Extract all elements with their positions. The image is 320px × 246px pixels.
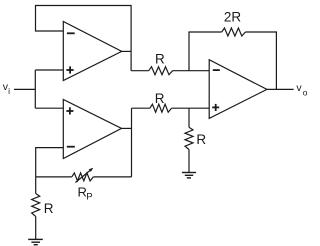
wire 2R right leg down to U3 output xyxy=(245,32,276,89)
wire R3 top lead xyxy=(188,108,190,127)
op-amp U1 xyxy=(63,22,121,81)
wire U2 inverting input xyxy=(36,148,64,177)
wire RP feedback left lead xyxy=(36,176,72,178)
svg-text:R: R xyxy=(155,51,165,66)
wire R2 left lead from U2 feedback corner xyxy=(132,107,150,109)
svg-text:i: i xyxy=(8,86,10,96)
wire R4 top lead xyxy=(35,177,37,194)
wire R3 bottom lead xyxy=(188,150,190,173)
ground (right) xyxy=(182,173,196,178)
ground (left) xyxy=(28,239,43,244)
wire branch to U2 noninverting input xyxy=(35,107,63,109)
op-amp U3 xyxy=(209,60,267,119)
wire RP feedback right vertical xyxy=(131,108,133,177)
resistor R3 (to ground) xyxy=(185,127,193,149)
svg-text:R: R xyxy=(196,132,206,147)
wire R1 right lead to U3 inverting input xyxy=(173,70,210,72)
wire input branch vertical xyxy=(34,70,36,108)
svg-text:2R: 2R xyxy=(224,10,242,25)
label RP value xyxy=(78,185,93,203)
wire R1 left lead from U1 output xyxy=(131,70,149,72)
svg-text:o: o xyxy=(303,88,308,98)
resistor R4 (left R to ground) xyxy=(32,194,40,217)
wire R2 right lead to U3 noninverting input xyxy=(172,107,210,109)
wire vi input stub xyxy=(14,88,35,90)
resistor R1 xyxy=(149,67,173,75)
wire 2R feedback loop left leg xyxy=(189,32,222,71)
resistor R2 xyxy=(150,104,172,112)
resistor 2R xyxy=(222,28,246,36)
wire U3 output xyxy=(267,88,294,90)
op-amp U2 xyxy=(63,100,121,159)
potentiometer RP xyxy=(72,168,94,183)
svg-text:R: R xyxy=(155,91,165,106)
svg-text:v: v xyxy=(296,82,302,94)
wire U1 feedback loop (output up and over to inverting input) xyxy=(36,6,132,71)
node vi input label xyxy=(3,81,10,96)
node vo output label xyxy=(296,82,307,97)
svg-text:P: P xyxy=(86,192,92,203)
wire R4 bottom lead xyxy=(35,216,37,239)
wire RP feedback right lead xyxy=(93,176,131,178)
wire U1 output stub xyxy=(122,50,131,52)
wire U2 output stub xyxy=(122,127,132,129)
wire branch to U1 noninverting input xyxy=(35,69,63,71)
svg-text:R: R xyxy=(44,201,54,216)
